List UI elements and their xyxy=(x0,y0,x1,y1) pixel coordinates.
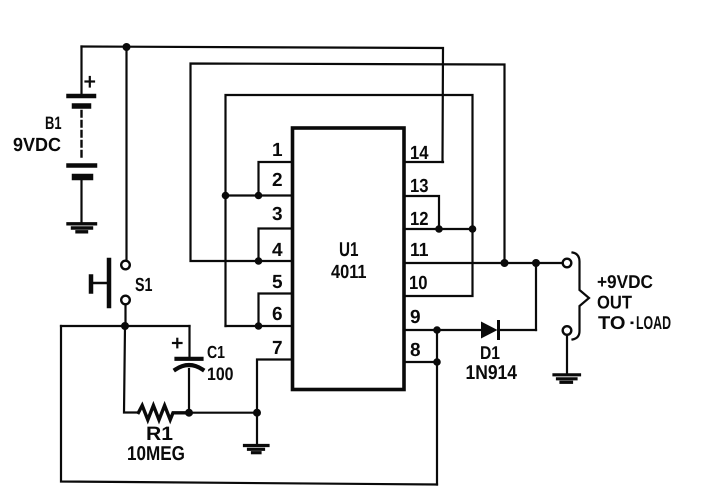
svg-text:5: 5 xyxy=(272,272,283,293)
svg-text:B1: B1 xyxy=(45,113,62,133)
svg-text:9VDC: 9VDC xyxy=(13,135,61,156)
svg-text:S1: S1 xyxy=(135,275,153,296)
svg-text:7: 7 xyxy=(272,338,283,359)
pin 5 stub and bracket xyxy=(259,294,293,327)
wire horizontal S1 node rail xyxy=(61,325,190,327)
op IC U1 body xyxy=(293,128,405,390)
wire3 loop pin6 pin2 up over to pin12 xyxy=(226,95,473,326)
svg-text:TO: TO xyxy=(598,312,626,333)
diode D1 xyxy=(481,263,536,339)
svg-text:R1: R1 xyxy=(146,423,173,445)
pin 3 stub and bracket xyxy=(259,229,293,262)
terminal output return xyxy=(563,326,572,335)
svg-text:6: 6 xyxy=(272,304,283,325)
brace output xyxy=(573,253,590,340)
svg-text:2: 2 xyxy=(272,170,283,191)
node diode output junction xyxy=(532,259,540,267)
wire output return to ground xyxy=(566,335,568,373)
node pin7 ground junction xyxy=(253,409,261,417)
wire pin 7 connection xyxy=(257,360,292,413)
svg-text:12: 12 xyxy=(410,209,429,230)
wire pin9 pin8 down to bottom rail xyxy=(436,330,438,485)
wire top rail from B1+ to pin 14 vertical xyxy=(82,47,444,163)
node wire2 output junction xyxy=(501,259,509,267)
svg-text:+9VDC: +9VDC xyxy=(597,271,653,292)
svg-text:9: 9 xyxy=(410,307,421,328)
pin 12 stub xyxy=(404,228,473,230)
svg-text:1N914: 1N914 xyxy=(466,362,518,384)
wire B1 negative lead xyxy=(80,180,82,222)
svg-text:4011: 4011 xyxy=(331,262,367,283)
capacitor C1 electrolytic xyxy=(176,359,203,413)
svg-text:OUT: OUT xyxy=(597,292,633,313)
svg-text:10: 10 xyxy=(409,273,428,294)
node pin1-2 bracket xyxy=(255,192,263,200)
wire C1 top lead xyxy=(188,326,190,357)
svg-text:1: 1 xyxy=(272,140,283,161)
wire ground stub below node xyxy=(256,413,258,444)
wire left vertical and bottom rail xyxy=(61,326,437,485)
svg-text:100: 100 xyxy=(207,364,234,384)
node junction top rail to S1 xyxy=(123,43,131,51)
svg-text:8: 8 xyxy=(410,340,421,361)
svg-text:4: 4 xyxy=(272,240,283,261)
wire R1 left lead vertical xyxy=(124,326,139,413)
node pin9 junction xyxy=(433,326,441,334)
node S1 junction xyxy=(121,322,129,330)
pin 6 stub xyxy=(226,325,293,327)
node pin2 wire3 junction xyxy=(222,192,230,200)
svg-text:LOAD: LOAD xyxy=(636,312,671,333)
node pin13-12 bracket xyxy=(435,225,443,233)
pin 13 stub and bracket xyxy=(404,196,439,229)
pin 8 stub xyxy=(404,361,437,363)
svg-text:13: 13 xyxy=(410,176,429,197)
plus sign C1 polarity xyxy=(173,339,182,348)
node pin8 junction xyxy=(433,358,441,366)
ground battery xyxy=(68,224,96,232)
pin 9 stub to diode xyxy=(404,329,481,331)
svg-text:10MEG: 10MEG xyxy=(127,443,185,465)
svg-text:C1: C1 xyxy=(207,342,225,362)
ground output xyxy=(554,375,580,383)
node pin3-4 bracket xyxy=(255,257,263,265)
svg-text:14: 14 xyxy=(410,143,429,164)
svg-text:11: 11 xyxy=(410,240,429,261)
pin 14 stub xyxy=(404,161,443,163)
pin 1 stub and bracket xyxy=(259,162,293,196)
svg-text:U1: U1 xyxy=(339,239,359,261)
svg-text:D1: D1 xyxy=(480,342,500,363)
wire S1 bottom lead xyxy=(124,305,126,327)
wire B1 positive lead xyxy=(80,47,82,95)
ground R1 C1 xyxy=(245,446,269,453)
battery B1 xyxy=(69,96,96,177)
resistor R1 xyxy=(139,406,190,420)
pin 10 stub and bracket xyxy=(404,229,473,296)
wire R1 to pin7 ground rail xyxy=(189,412,257,414)
pin 4 stub and wire loop to output node xyxy=(191,64,505,264)
node pin12 wire3 junction xyxy=(469,225,477,233)
pin 2 stub xyxy=(226,194,293,196)
terminal output positive xyxy=(563,259,572,268)
wire S1 feed vertical xyxy=(125,47,127,260)
label TO LOAD xyxy=(631,322,634,325)
svg-text:3: 3 xyxy=(272,204,283,225)
plus sign battery polarity xyxy=(86,77,95,87)
switch S1 pushbutton xyxy=(91,260,130,306)
pin 11 output line to terminal xyxy=(404,262,563,264)
node pin5-6 bracket xyxy=(255,322,263,330)
node R1 C1 junction xyxy=(185,409,193,417)
